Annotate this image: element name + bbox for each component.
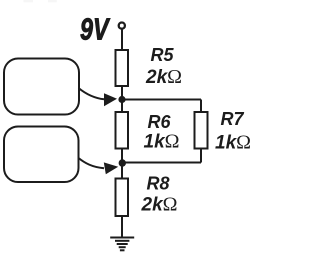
svg-text:2kΩ: 2kΩ [141,194,178,216]
svg-text:R5: R5 [151,45,175,65]
svg-text:R6: R6 [148,112,172,132]
svg-text:1kΩ: 1kΩ [215,132,251,154]
svg-text:R7: R7 [221,109,245,129]
svg-text:R8: R8 [147,174,170,194]
svg-text:2kΩ: 2kΩ [145,66,182,88]
svg-text:1kΩ: 1kΩ [144,131,180,153]
svg-text:9V: 9V [80,12,110,47]
